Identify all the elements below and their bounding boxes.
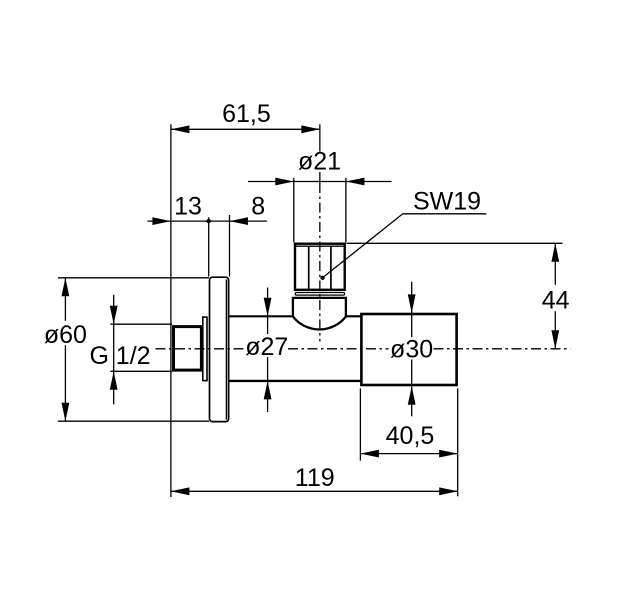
svg-text:G: G bbox=[90, 342, 109, 370]
svg-text:SW19: SW19 bbox=[413, 188, 481, 216]
svg-text:ø27: ø27 bbox=[245, 333, 288, 361]
svg-text:ø60: ø60 bbox=[44, 321, 87, 349]
svg-text:8: 8 bbox=[251, 193, 265, 221]
svg-text:ø21: ø21 bbox=[298, 147, 341, 175]
svg-text:ø30: ø30 bbox=[390, 336, 433, 364]
svg-text:119: 119 bbox=[295, 464, 335, 492]
svg-text:13: 13 bbox=[174, 193, 202, 221]
svg-text:44: 44 bbox=[542, 287, 570, 315]
svg-text:61,5: 61,5 bbox=[222, 100, 271, 128]
svg-text:40,5: 40,5 bbox=[386, 422, 435, 450]
svg-text:1/2: 1/2 bbox=[116, 342, 151, 370]
